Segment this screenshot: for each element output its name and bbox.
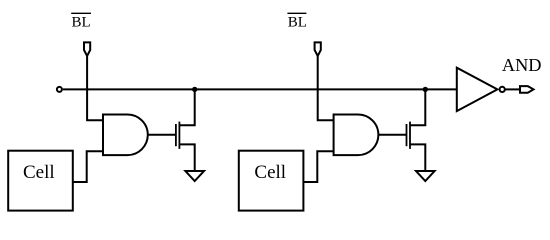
svg-text:Cell: Cell xyxy=(254,162,286,183)
svg-text:Cell: Cell xyxy=(23,162,55,183)
svg-text:AND: AND xyxy=(502,55,542,75)
svg-text:BL: BL xyxy=(72,15,91,31)
svg-text:BL: BL xyxy=(288,15,307,31)
